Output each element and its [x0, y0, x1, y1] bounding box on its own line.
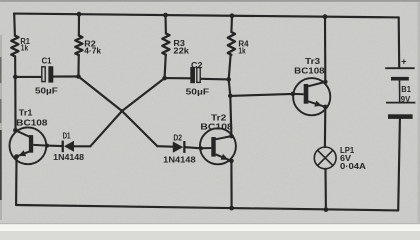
wire: Tr3 emitter down to lamp — [324, 107, 327, 147]
wire: tap down to Tr2 collector — [230, 96, 231, 136]
label Tr1 — [16, 109, 48, 128]
wire: R2 bottom to C1 junction — [77, 55, 79, 76]
diode D2 (1N4148) — [173, 141, 186, 153]
wire: D2 cathode to Tr2 base — [185, 147, 201, 148]
resistor R2 — [75, 36, 82, 56]
wire: R4 top drop — [230, 16, 233, 32]
label R2 — [84, 40, 101, 56]
short thick plate cell 2 — [388, 114, 413, 119]
wire: Tr2 collector tap to Tr3 base — [230, 94, 293, 96]
battery B1 — [385, 68, 415, 119]
node Tr3 collector edge — [323, 80, 328, 85]
right scan edge shade — [418, 2, 420, 224]
node Tr1 base edge — [45, 144, 49, 148]
top scan band — [0, 0, 420, 2]
resistor R1 — [11, 36, 18, 57]
wire: Tr1 emitter to bottom-left corner — [15, 157, 18, 205]
wire: top supply rail — [14, 14, 399, 18]
wire: R2 top drop — [78, 14, 80, 35]
label D1 — [53, 132, 85, 162]
label C1 — [35, 57, 58, 96]
transistor Tr2 (BC108) — [200, 128, 236, 164]
wire: C2 junction down to Tr3 base tap — [229, 79, 231, 96]
long plate cell 2 — [386, 102, 415, 104]
node Tr2 collector edge — [229, 134, 234, 139]
node Tr2 emitter edge — [229, 159, 234, 164]
wire: C1 right lead — [53, 75, 78, 77]
wire: R4 bottom to C2 right junction — [229, 55, 231, 80]
label B1 battery — [401, 56, 412, 103]
node ground rail / Tr2 emitter — [229, 206, 234, 211]
wire: C2 left lead — [165, 77, 191, 79]
transistor Tr3 (BC108) — [293, 78, 330, 115]
wire: right rail lower (battery minus to corner) — [398, 119, 400, 210]
node C1 left / left rail — [13, 75, 18, 80]
long plate (+) cell 1 — [385, 67, 414, 69]
node Tr3 emitter edge — [323, 105, 328, 110]
resistor R3 — [162, 33, 169, 54]
node Tr3 base edge — [291, 92, 296, 97]
node C2 left / R3 bottom — [162, 76, 167, 81]
wire: cross-coupling diagonal A (C1 junction to D2) — [78, 77, 157, 147]
node ground rail / lamp — [324, 207, 329, 212]
short thick plate cell 1 — [391, 77, 409, 81]
label D2 — [163, 133, 196, 164]
node Tr3 base tap — [228, 94, 233, 99]
wire: C1 left lead — [15, 76, 41, 78]
wire: Tr2 emitter down to ground rail — [230, 161, 232, 208]
diode D1 (1N4148) — [62, 141, 74, 153]
wire: Tr3 collector up to top rail — [324, 17, 326, 82]
label R4 — [238, 39, 249, 55]
wire: left rail upper (corner to R1) — [13, 14, 16, 36]
node Tr2 base edge — [199, 146, 203, 150]
wire: D1 cathode to Tr1 base — [47, 145, 62, 148]
node top rail / R4 — [230, 13, 235, 18]
inter-cell link wire — [399, 81, 401, 103]
resistor R4 — [228, 32, 235, 55]
node top rail / R3 — [163, 13, 168, 18]
wire: C2 right lead — [201, 78, 229, 81]
label R3 — [173, 39, 189, 55]
node Tr1 emitter — [14, 154, 19, 159]
wire: cross-coupling diagonal B (C2 junction to D1) — [90, 78, 164, 146]
wire: lamp bottom to ground rail — [324, 169, 327, 210]
wire: D2 anode lead — [157, 145, 173, 148]
transistor Tr1 (BC108) — [10, 127, 48, 164]
wire: R3 bottom to C2 junction — [165, 55, 166, 78]
node C1 right / R2 bottom — [76, 74, 81, 79]
node top rail / Tr3 collector — [323, 14, 328, 19]
label Tr2 — [200, 113, 233, 131]
wire: R3 top drop — [164, 15, 167, 33]
label Tr3 — [294, 57, 325, 76]
capacitor C2 plates — [190, 67, 200, 83]
lamp LP1 — [314, 147, 336, 169]
left scan edge marks — [0, 35, 2, 220]
wire: R1 bottom to Tr1 collector — [14, 56, 17, 130]
node C2 right / R4 bottom — [226, 77, 231, 82]
label LP1 — [340, 146, 366, 171]
capacitor C1 plates — [42, 66, 54, 82]
node top rail / R2 — [77, 12, 82, 17]
node crossover blob — [120, 109, 123, 112]
wire: D1 anode lead — [74, 145, 90, 147]
label R1 — [20, 37, 30, 53]
wire: right rail upper (top rail to battery plus) — [398, 17, 401, 67]
label C2 — [186, 61, 210, 97]
bottom white strip — [0, 224, 420, 231]
node Tr1 collector — [13, 128, 18, 133]
wire: bottom ground rail — [16, 205, 398, 210]
junction node dots — [13, 12, 328, 212]
